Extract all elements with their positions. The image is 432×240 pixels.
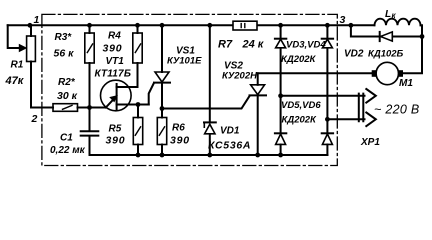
diode VD4	[326, 25, 328, 119]
wire R1 to R2	[31, 107, 53, 109]
resistor R2	[53, 104, 78, 112]
transistor VT1	[101, 80, 132, 111]
svg-text:~ 220 В: ~ 220 В	[374, 103, 420, 117]
wire VS1 to VS2 gate	[162, 96, 250, 109]
resistor R1	[30, 25, 32, 107]
svg-text:R7: R7	[218, 39, 233, 51]
svg-text:R2*: R2*	[58, 77, 76, 88]
svg-text:3: 3	[340, 14, 346, 26]
svg-text:КУ101Е: КУ101Е	[167, 56, 202, 67]
bottom rail	[90, 154, 328, 156]
capacitor C1	[89, 108, 91, 156]
wire right rail to motor	[403, 37, 422, 74]
thyristor VS1	[161, 25, 163, 72]
diode VD6	[326, 119, 328, 155]
svg-text:0,22 мк: 0,22 мк	[50, 145, 86, 156]
wire VT1 b2	[117, 104, 149, 106]
svg-text:VD3,VD4: VD3,VD4	[286, 40, 326, 51]
svg-text:C1: C1	[60, 133, 73, 144]
svg-text:24 к: 24 к	[242, 39, 265, 51]
svg-text:390: 390	[103, 43, 123, 55]
svg-text:КУ202Н: КУ202Н	[222, 71, 258, 82]
wire top right corner	[421, 25, 423, 36]
svg-text:ХР1: ХР1	[360, 137, 380, 148]
node 3 junction	[349, 23, 354, 28]
wire VS2 anode to motor	[258, 72, 372, 74]
svg-text:VD1: VD1	[220, 126, 240, 137]
top supply rail	[8, 24, 375, 26]
diode VD5	[280, 96, 282, 155]
diode VD2	[351, 25, 422, 36]
svg-text:VD5,VD6: VD5,VD6	[281, 100, 321, 111]
svg-text:M1: M1	[399, 78, 413, 89]
resistor R4	[137, 25, 139, 87]
svg-text:30 к: 30 к	[57, 90, 78, 102]
svg-text:390: 390	[170, 135, 190, 147]
wire wiper loop of R1	[8, 25, 20, 48]
node 1	[28, 23, 33, 28]
svg-text:КД202К: КД202К	[281, 54, 317, 65]
svg-text:КД102Б: КД102Б	[368, 49, 404, 60]
svg-text:R3*: R3*	[55, 32, 73, 43]
wire AC pin bottom	[327, 118, 364, 120]
svg-text:R5: R5	[109, 124, 122, 135]
wire R2 to emitter node	[78, 107, 106, 109]
svg-text:VD2: VD2	[344, 49, 364, 60]
svg-text:R1: R1	[11, 60, 24, 71]
connector XP1	[359, 94, 364, 122]
motor M1	[376, 62, 398, 84]
svg-text:к: к	[392, 11, 397, 20]
svg-text:КД202К: КД202К	[282, 115, 318, 126]
resistor R5	[137, 105, 139, 156]
svg-text:56 к: 56 к	[54, 48, 75, 60]
inductor Lk	[375, 19, 421, 26]
thyristor VS2	[257, 73, 259, 85]
svg-text:КТ117Б: КТ117Б	[95, 69, 132, 80]
zener VD1	[209, 25, 211, 155]
svg-text:47к: 47к	[5, 75, 25, 87]
resistor R3	[89, 25, 91, 107]
svg-text:R6: R6	[172, 123, 185, 134]
svg-text:2: 2	[31, 113, 38, 125]
node emitter	[87, 105, 92, 110]
resistor R7	[233, 21, 257, 30]
svg-text:R4: R4	[108, 31, 121, 42]
svg-text:VT1: VT1	[106, 56, 125, 67]
node VS1 cathode	[160, 106, 165, 111]
svg-text:390: 390	[106, 135, 126, 147]
svg-text:КС536А: КС536А	[208, 140, 251, 152]
diode VD3	[280, 25, 282, 96]
dashed block border	[42, 14, 337, 165]
svg-text:1: 1	[34, 14, 40, 26]
svg-text:L: L	[385, 9, 391, 20]
wire AC pin top	[281, 95, 365, 97]
resistor R6	[161, 109, 163, 156]
